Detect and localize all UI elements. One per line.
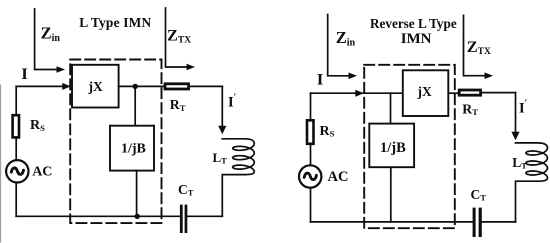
svg-text:RT: RT bbox=[462, 101, 478, 117]
svg-text:LT: LT bbox=[213, 150, 228, 166]
svg-text:RT: RT bbox=[170, 97, 186, 113]
svg-text:I′: I′ bbox=[519, 99, 528, 117]
svg-text:AC: AC bbox=[328, 169, 349, 185]
svg-text:Zin: Zin bbox=[41, 23, 61, 44]
svg-text:1/jB: 1/jB bbox=[121, 142, 146, 157]
svg-text:ZTX: ZTX bbox=[167, 25, 191, 45]
svg-text:Zin: Zin bbox=[336, 28, 356, 49]
svg-text:CT: CT bbox=[178, 182, 194, 198]
svg-text:AC: AC bbox=[32, 165, 52, 180]
svg-text:IMN: IMN bbox=[401, 31, 432, 47]
svg-text:I: I bbox=[317, 72, 324, 89]
svg-text:RS: RS bbox=[30, 118, 45, 133]
svg-text:I′: I′ bbox=[228, 93, 237, 111]
svg-text:RS: RS bbox=[320, 124, 335, 139]
svg-text:ZTX: ZTX bbox=[467, 37, 491, 57]
svg-text:LT: LT bbox=[512, 155, 527, 171]
svg-text:jX: jX bbox=[417, 84, 432, 99]
svg-text:L Type IMN: L Type IMN bbox=[79, 15, 151, 30]
svg-text:Reverse L Type: Reverse L Type bbox=[370, 16, 457, 31]
svg-text:CT: CT bbox=[471, 187, 487, 203]
svg-text:I: I bbox=[21, 66, 28, 83]
svg-text:1/jB: 1/jB bbox=[380, 140, 406, 156]
svg-text:jX: jX bbox=[88, 79, 103, 94]
